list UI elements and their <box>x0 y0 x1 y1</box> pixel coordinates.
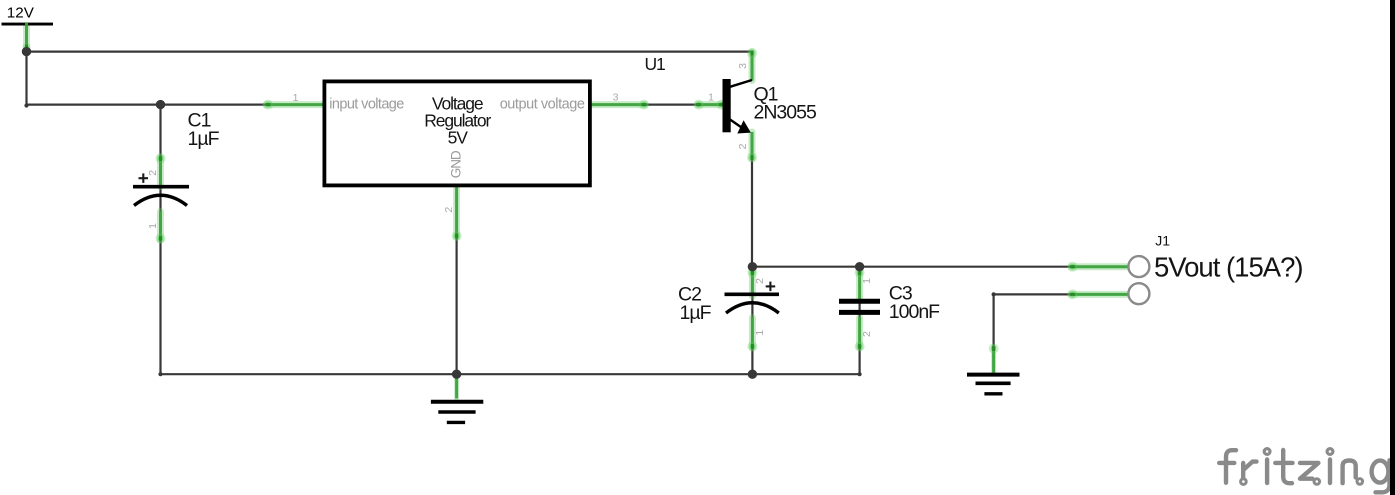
svg-text:5Vout (15A?): 5Vout (15A?) <box>1154 252 1303 283</box>
svg-text:3: 3 <box>737 63 749 69</box>
svg-text:1µF: 1µF <box>680 302 712 324</box>
svg-text:1: 1 <box>861 278 873 284</box>
svg-text:2: 2 <box>754 278 766 284</box>
svg-text:J1: J1 <box>1155 233 1170 249</box>
svg-text:2: 2 <box>737 143 749 149</box>
svg-text:100nF: 100nF <box>889 301 940 323</box>
svg-text:2: 2 <box>443 207 455 213</box>
svg-text:12V: 12V <box>7 4 35 21</box>
svg-text:2: 2 <box>147 170 159 176</box>
svg-text:5V: 5V <box>448 127 469 147</box>
svg-text:GND: GND <box>448 150 463 178</box>
svg-text:U1: U1 <box>645 54 665 74</box>
svg-text:1: 1 <box>708 92 714 104</box>
svg-text:output voltage: output voltage <box>500 97 585 113</box>
svg-text:3: 3 <box>613 92 619 104</box>
svg-text:1: 1 <box>754 330 766 336</box>
svg-text:1µF: 1µF <box>188 128 220 150</box>
svg-text:input voltage: input voltage <box>329 97 404 113</box>
svg-text:1: 1 <box>147 223 159 229</box>
svg-text:1: 1 <box>293 92 299 104</box>
svg-text:2N3055: 2N3055 <box>754 102 817 124</box>
svg-text:2: 2 <box>861 331 873 337</box>
